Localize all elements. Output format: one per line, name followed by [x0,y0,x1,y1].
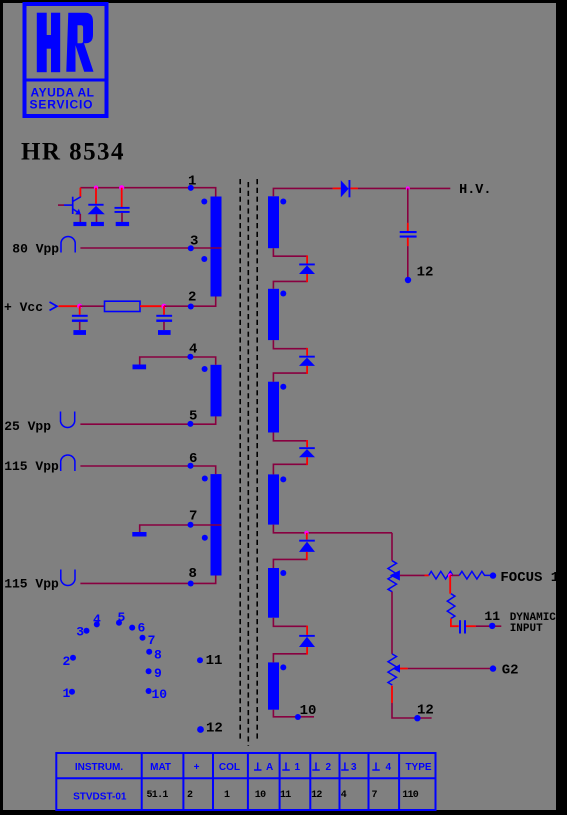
node pin 2 [188,304,194,310]
svg-text:STVDST-01: STVDST-01 [73,792,127,803]
wiper arrow G2 pot [393,664,400,673]
pinview dot 10 [146,688,152,694]
wire pin5 [80,416,215,424]
svg-text:8: 8 [154,648,162,663]
svg-text:11: 11 [280,790,291,801]
wire cap to pin 11 [466,625,476,627]
node pin 3 [188,245,194,251]
svg-text:2: 2 [63,654,71,669]
svg-text:10: 10 [255,790,266,801]
svg-text:12: 12 [417,265,434,281]
node pin 6 [188,463,194,469]
node pin 4 [187,354,193,360]
wire S5 to D6 [273,618,307,627]
svg-text:+: + [194,762,200,773]
svg-text:1: 1 [188,174,196,190]
polarity dot P1 top [201,199,207,205]
wire D5 to S5 [273,559,306,568]
svg-text:4: 4 [189,342,197,358]
wire focus pot to G2 pot [391,592,393,654]
polarity dot S1 [280,199,286,205]
wire S6 to pin 10 [273,710,314,717]
wiper arrow focus pot [390,570,400,580]
svg-text:FOCUS 1: FOCUS 1 [500,570,559,586]
node junction CA [77,304,82,309]
pinview dot 2 [70,655,76,661]
wire red junction down [449,575,451,593]
pinview dot 9 [146,668,152,674]
wire pin6 [80,466,215,474]
svg-text:7: 7 [189,509,197,525]
potentiometer G2 (vertical zigzag) [388,654,397,685]
wire Vcc red segment [59,305,81,307]
svg-text:110: 110 [402,790,419,801]
wire rail down to focus pot [391,533,393,561]
secondary winding S3 [268,382,279,433]
wire S3 to D4 [273,433,307,441]
wire pin1 top rail [80,188,215,197]
wire D3 to S3 [273,373,307,382]
pinview dot 7 [140,635,146,641]
ground CA [73,330,86,335]
polarity dot S4 [280,476,286,482]
wire C1 to ground [121,213,123,222]
waveform symbol negative half-cycle [61,412,75,428]
ground D1 [91,222,104,226]
wire D1 to ground [96,214,98,222]
svg-text:2: 2 [326,762,332,773]
svg-text:6: 6 [189,451,197,467]
wire junction to winding [164,297,216,307]
wire red drop to C1 [121,188,123,207]
svg-text:H.V.: H.V. [459,183,491,198]
wire HV cap to pin 12 [407,238,409,247]
logo letter R [66,13,93,72]
secondary winding S1 [268,196,279,248]
svg-text:HR 8534: HR 8534 [21,139,124,166]
svg-text:3: 3 [190,234,198,250]
svg-text:7: 7 [148,633,156,648]
capacitor CB [156,306,172,330]
svg-text:7: 7 [372,790,378,801]
transformer core dashed lines [240,179,257,746]
table frame [56,753,435,810]
node junction C1 [119,185,124,190]
node junction focus tap [304,531,308,535]
table header gnd 3 [341,763,349,771]
svg-text:12: 12 [311,790,322,801]
wire D4 to S4 [273,464,307,474]
svg-text:INPUT: INPUT [510,623,543,635]
svg-text:6: 6 [138,621,146,636]
primary winding P2 (pins 4-5) [211,365,222,417]
polarity dot P3 lower section [202,535,208,541]
HR logo box [25,4,107,116]
secondary winding S5 [268,568,279,618]
capacitor C HV [400,231,417,238]
wire S1 to D2 [273,248,307,256]
diode D2 [299,264,315,275]
wire D2 to S2 [273,281,307,288]
svg-text:115 Vpp: 115 Vpp [4,459,59,474]
node pin 12 (HV return) [405,277,411,283]
node pin 10 [295,714,301,720]
svg-text:5: 5 [118,610,126,625]
table header gnd 4 [372,763,380,771]
svg-text:10: 10 [300,703,317,719]
resistor focus series 2 (zigzag) [459,571,491,579]
waveform symbol positive half-cycle [61,455,75,471]
waveform symbol negative half-cycle [61,570,75,586]
wire junction to second resistor [450,574,459,576]
wire to G2 terminal [408,668,490,670]
svg-text:12: 12 [417,703,434,719]
ground C1 [116,222,129,226]
ground Q1 emitter [73,222,86,226]
wire red L to coupling cap [451,619,459,627]
svg-text:8: 8 [189,566,197,582]
node junction D1 [94,186,98,190]
pinview dot 3 [84,628,90,634]
svg-text:5: 5 [189,409,197,425]
svg-text:80 Vpp: 80 Vpp [12,242,59,257]
node pin 1 [188,185,194,191]
diode D5 [299,540,315,552]
svg-text:1: 1 [224,790,230,801]
svg-text:2: 2 [187,790,193,801]
svg-text:2: 2 [188,290,196,306]
secondary winding S6 [268,662,279,709]
pinview dot 6 [129,625,135,631]
wire red wiper stub [400,668,408,670]
logo letter H [37,13,60,72]
svg-text:INSTRUM.: INSTRUM. [75,762,124,773]
svg-text:A: A [266,762,273,773]
wire red drop to Q1 collector [79,188,81,197]
svg-text:3: 3 [351,762,357,773]
waveform symbol positive half-cycle [61,236,75,252]
node pin 5 [187,421,193,427]
resistor R Vcc [105,301,141,311]
svg-text:115 Vpp: 115 Vpp [4,577,59,592]
node pin 12 (bottom) [414,715,420,721]
svg-text:4: 4 [341,790,347,801]
polarity dot S5 [280,570,286,576]
node pin 11 [489,623,495,629]
secondary winding S2 [268,289,279,340]
wire pin4 [140,357,216,365]
capacitor CA [72,306,88,330]
svg-text:10: 10 [152,687,168,702]
svg-text:3: 3 [76,625,84,640]
transistor Q1 [58,197,81,222]
primary winding P3 (pins 6-7-8) [211,474,222,575]
ground pin4 [133,365,147,370]
wire HV cap branch [407,188,409,223]
table header gnd A [254,763,262,771]
input chevron [50,302,58,310]
svg-text:TYPE: TYPE [405,762,431,773]
svg-text:G2: G2 [502,662,519,678]
node junction focus divider [448,573,452,577]
polarity dot S3 [280,384,286,390]
svg-text:COL: COL [219,762,240,773]
resistor focus series 1 (zigzag) [429,571,453,579]
wire red at HV diode cathode [350,187,358,189]
wire S2 to D3 [273,340,307,349]
primary winding P1 (pins 1-3-2) [211,197,222,297]
polarity dot S6 [280,664,286,670]
wire pin3 [80,247,221,249]
pinview dot 12 [197,726,204,733]
svg-text:MAT: MAT [150,762,171,773]
wire D6 to S6 [273,654,307,663]
pinview dot 4 [94,621,100,627]
polarity dot P2 [202,366,208,372]
node FOCUS terminal [490,572,496,578]
svg-text:9: 9 [154,666,162,681]
pinview dot 8 [146,649,152,655]
wire pin7 [140,525,222,532]
wire to resistor [80,305,105,307]
wire red junction to D5 [306,533,308,540]
wire G2 pot to pin 12 [391,686,393,703]
svg-text:12: 12 [206,721,223,737]
node pin 8 [188,581,194,587]
node pin 7 [188,522,194,528]
svg-text:25 Vpp: 25 Vpp [4,419,51,434]
ground CB [158,330,171,335]
wire to H.V. terminal [358,187,450,189]
svg-text:11: 11 [484,609,500,624]
diode D4 [299,447,315,457]
svg-text:4: 4 [93,612,101,627]
node G2 terminal [490,665,496,671]
table header gnd 2 [312,763,320,771]
svg-text:51.1: 51.1 [147,790,169,801]
svg-text:11: 11 [206,653,223,669]
diode D HV [341,180,351,197]
secondary winding S4 [268,474,279,524]
wire red drop to D1 [95,188,97,204]
wire resistor to junction red [140,305,164,307]
diode D3 [299,356,315,366]
node junction HV cap [406,186,410,190]
capacitor dynamic coupling [459,620,466,633]
node junction CB [161,304,166,309]
wire wiper to resistor [400,574,425,576]
resistor dynamic branch (vertical zigzag) [447,594,455,619]
polarity dot S2 [280,291,286,297]
wire S1 top to HV diode [273,188,332,196]
pinview dot 11 [197,657,203,663]
polarity dot P3 top [202,476,208,482]
polarity dot P1 lower section [201,256,207,262]
diode D6 [299,635,315,647]
svg-text:SERVICIO: SERVICIO [30,97,93,111]
diode D1 damper [88,204,105,214]
svg-text:4: 4 [386,762,392,773]
table header gnd 1 [282,763,290,771]
capacitor C1 [115,207,130,213]
ground pin7 [132,532,146,537]
wire red at HV diode anode [333,187,341,189]
pinview dot 1 [69,689,75,695]
potentiometer focus (vertical zigzag) [388,561,397,592]
svg-text:1: 1 [295,762,301,773]
svg-text:1: 1 [63,686,71,701]
wire pin8 [80,576,215,584]
wire S4 to focus tap rail [273,525,392,533]
pinview dot 5 [116,620,122,626]
svg-text:+ Vcc: + Vcc [4,300,43,315]
